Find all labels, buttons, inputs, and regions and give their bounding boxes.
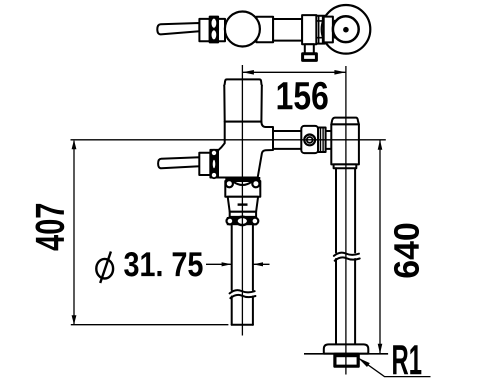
flush pipe right wall [252,226,254,290]
taper slot mark [238,203,248,205]
arrow R1 [358,358,370,367]
arrow 407 top [72,140,77,150]
radius note R1 [393,345,421,374]
extension line 407 bottom [71,324,229,326]
phi dim leader right [253,263,270,265]
elbow body [331,124,359,164]
body centerline [241,65,243,336]
elbow cap [331,118,359,125]
flange box right of ball [256,17,273,42]
arrow 407 bottom [72,315,77,325]
spud dome right bolt [252,180,259,187]
supply pipe upper left wall [335,168,337,252]
phi symbol [96,252,113,284]
dimension line 640 [379,140,381,354]
supply pipe upper right wall [354,168,356,252]
handle lever (top detail view) [157,23,199,34]
floor nut [335,354,358,366]
R1 leader [358,358,431,377]
flange center dot [343,27,349,33]
vacuum breaker body block [302,15,316,44]
arrow phi left [222,262,232,266]
arrow 640 bottom [378,344,383,354]
phi dim leader left [206,263,232,265]
coupling ridges (top detail) [316,16,324,44]
arrow phi right [253,262,263,266]
flush pipe lower right wall [252,297,254,325]
supply pipe lower right wall [354,259,356,344]
wall flange outer circle [322,5,371,54]
arrow 156 right [334,70,346,75]
supply pipe lower left wall [335,259,337,344]
dimension text 640 (rotated) [394,224,419,278]
spud flange block [225,181,260,197]
spud coupling nut [236,216,250,227]
stop valve nut [301,126,318,153]
dimension text 31.75 [124,252,202,276]
handle packing nut (side) [210,150,218,178]
valve body upper with cap [224,79,262,121]
outlet axis line [71,139,386,141]
flange pipe-end arc [333,21,335,38]
flush pipe lower left wall [231,297,233,325]
arrow 640 top [378,140,383,150]
dimension line 407 [73,141,75,325]
handle socket block (top detail) [199,19,209,41]
handle socket block (side) [199,153,210,175]
ball joint [225,12,260,47]
stop valve screw outer [304,135,315,146]
spud taper [228,197,258,212]
wall flange inner circle [333,16,359,42]
supply pipe centerline [345,66,347,375]
dimension text 407 (rotated) [35,204,64,251]
flush pipe bottom end [232,324,253,326]
dimension text 156 [278,82,328,110]
stub pipe below vacuum breaker [305,44,314,54]
floor escutcheon dome [324,344,369,353]
spud dome sag arc [233,181,252,185]
flush pipe break symbol [230,290,255,293]
collar between nut and ball [218,19,225,41]
horizontal pipe (top detail) [273,19,302,41]
packing nut with holes (top detail) [210,17,218,43]
flush pipe left wall [231,226,233,290]
flush handle lever (side) [158,157,199,168]
stop valve screw inner [307,137,313,143]
spud neck [230,212,256,217]
elbow coupling ring [334,164,357,168]
supply pipe break symbol [334,253,359,256]
flange bracket [324,17,333,43]
stop valve ridges [318,128,326,153]
arrow 156 left [242,70,254,75]
valve body lower with outlet boss [218,122,273,178]
floor line [304,353,388,355]
outlet pipe to elbow [273,131,331,149]
dimension line 156 [242,71,346,73]
stub end cap [303,54,317,61]
spud joint dark band [225,177,260,181]
spud dome left bolt [226,180,233,187]
